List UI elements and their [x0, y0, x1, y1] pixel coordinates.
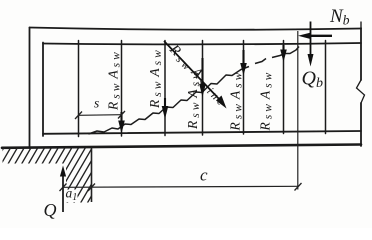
stirrup 6 force arrow	[280, 45, 287, 62]
beam right edge upper (with break)	[360, 28, 362, 80]
support hatching	[0, 146, 134, 206]
svg-text:c: c	[200, 166, 208, 185]
stirrup 2 force arrow	[118, 112, 125, 134]
dimension line a1 + c	[63, 186, 298, 187]
svg-text:RswAsw: RswAsw	[106, 49, 123, 111]
beam left edge	[29, 28, 31, 149]
stirrup 5 force arrow	[240, 50, 247, 76]
support right edge	[91, 148, 93, 202]
inner cage top line	[43, 43, 361, 44]
s left tick	[75, 112, 82, 120]
inclined crack	[89, 47, 300, 135]
stirrup 5	[243, 41, 245, 135]
stirrup 2	[121, 41, 123, 137]
stirrup 4	[202, 41, 204, 136]
force arrow Q_b	[308, 22, 314, 67]
stirrup 6	[283, 41, 285, 134]
stirrup 3 force arrow	[162, 98, 169, 119]
N_b end tick on right edge	[360, 22, 362, 29]
beam right edge lower	[360, 103, 362, 146]
force arrow N_b	[298, 33, 332, 39]
beam bottom edge	[2, 145, 361, 148]
right edge break symbol	[357, 80, 365, 103]
svg-text:RswAsw: RswAsw	[228, 70, 245, 132]
support reaction arrow Q	[60, 166, 66, 213]
tick at Q line	[60, 184, 67, 192]
tick at c end	[295, 183, 302, 191]
inner cage bottom line	[43, 131, 361, 134]
tick at support edge	[88, 184, 95, 192]
s dimension line	[79, 114, 122, 117]
stirrup 4 force arrow	[199, 58, 206, 97]
svg-text:s: s	[94, 96, 99, 111]
s right tick	[118, 111, 125, 119]
label a1 background	[64, 190, 78, 203]
svg-text:Nb: Nb	[329, 6, 350, 28]
svg-text:RswAsw: RswAsw	[258, 70, 275, 132]
stirrup 3	[164, 41, 166, 136]
beam top edge	[30, 28, 362, 30]
section extension line	[297, 31, 299, 190]
stirrup 1	[78, 41, 80, 137]
inner cage left line	[42, 43, 44, 137]
stirrup 7	[325, 41, 327, 134]
svg-text:RswAsw: RswAsw	[147, 47, 164, 109]
svg-text:Q: Q	[44, 200, 57, 220]
svg-text:Qb: Qb	[302, 68, 323, 92]
inclined bar force arrow	[164, 41, 227, 109]
